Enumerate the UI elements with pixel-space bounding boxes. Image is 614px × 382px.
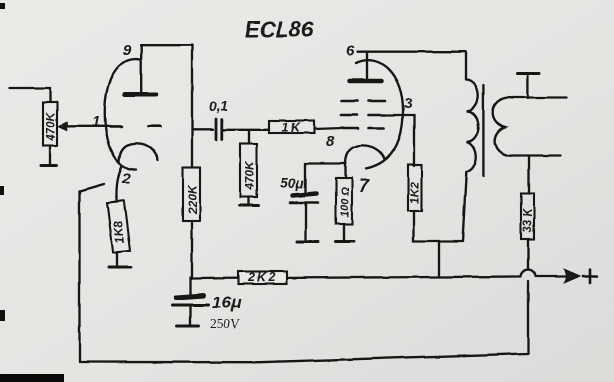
tube V2 pentode envelope	[356, 60, 403, 168]
transformer T1 primary bottom lead	[463, 172, 467, 241]
svg-text:250V: 250V	[210, 316, 240, 331]
B+ arrow head	[565, 270, 579, 282]
capacitor C3 16u bottom plate	[173, 304, 209, 307]
svg-text:16μ: 16μ	[212, 293, 242, 312]
resistor R1 470K (grid leak)	[43, 102, 58, 146]
pentode grid dashes row2	[341, 114, 385, 117]
wire screen grid pin 3	[385, 115, 414, 166]
pentode cathode arc	[346, 145, 385, 164]
svg-text:8: 8	[326, 133, 335, 150]
wire C1 to 1K	[223, 129, 269, 131]
pentode cathode wire	[306, 164, 347, 179]
scan artifact top-left	[0, 3, 5, 9]
svg-text:1: 1	[92, 114, 100, 131]
wire junction down to R4	[248, 131, 250, 144]
wire below R2	[116, 252, 118, 268]
svg-text:100 Ω: 100 Ω	[340, 187, 352, 217]
resistor R4 470K (pentode grid leak)	[240, 144, 257, 197]
wire below 100ohm	[343, 224, 345, 241]
ground terminal below R4	[240, 204, 259, 207]
svg-text:33 K: 33 K	[523, 208, 535, 233]
capacitor C2 50u wire	[304, 164, 306, 193]
svg-text:2K2: 2K2	[247, 271, 277, 285]
svg-text:3: 3	[404, 95, 413, 112]
ground terminal below R2	[109, 266, 132, 269]
feedback wire bottom	[80, 354, 528, 363]
scan artifact bottom strip	[0, 374, 64, 382]
triode cathode arc	[119, 143, 158, 162]
resistor R5 220K (anode load)	[183, 168, 201, 221]
scan artifact left edge lower	[0, 310, 5, 321]
plus sign	[583, 270, 597, 284]
svg-text:2: 2	[121, 170, 131, 187]
resistor R3 1K (grid stopper)	[269, 121, 314, 135]
wire below 1K2	[414, 212, 463, 242]
scan artifact left edge	[0, 186, 4, 195]
ground terminal below C2	[297, 240, 319, 243]
transformer T1 primary top lead	[464, 52, 466, 80]
wire junction down to B+ rail	[438, 241, 440, 277]
triode anode plate	[125, 92, 157, 97]
resistor R2 1K8 (cathode)	[107, 201, 130, 253]
resistor R9 2K2 (B+ dropper)	[238, 271, 287, 285]
feedback wire left vertical	[78, 192, 80, 363]
svg-text:470K: 470K	[44, 111, 58, 142]
wire anode down to 220K	[191, 45, 193, 167]
ground terminal below R1	[41, 164, 57, 167]
pentode grid dashes row3	[343, 127, 384, 130]
wire below 220K to B+ rail	[191, 221, 193, 278]
resistor R6 100ohm (cathode)	[336, 178, 352, 224]
wire 1K to pentode grid	[314, 128, 343, 129]
transformer T1 primary winding	[466, 80, 479, 172]
wire below C3	[189, 305, 191, 325]
capacitor C2 50u bottom plate	[290, 201, 318, 204]
transformer T1 secondary bottom wire	[513, 154, 561, 156]
svg-text:1K2: 1K2	[408, 182, 422, 204]
wire below 33K	[527, 240, 529, 270]
svg-text:50μ: 50μ	[280, 175, 305, 191]
svg-text:6: 6	[346, 42, 355, 59]
svg-text:220K: 220K	[186, 184, 200, 215]
svg-text:9: 9	[123, 42, 132, 59]
wire to coupling cap	[192, 129, 213, 131]
tube V1 triode envelope	[105, 59, 140, 169]
pentode anode plate	[350, 79, 382, 84]
wire junction to 16u cap	[189, 277, 191, 295]
svg-text:470K: 470K	[243, 160, 257, 191]
wire below R1	[49, 146, 51, 165]
wire anode top	[141, 44, 192, 46]
svg-text:1K: 1K	[282, 121, 302, 135]
wire below R4	[247, 197, 249, 205]
wire below hop to bottom return	[527, 281, 529, 353]
transformer T1 secondary top wire	[513, 96, 567, 98]
B+ rail right of hop	[536, 275, 567, 277]
triode anode lead	[140, 45, 142, 92]
svg-text:7: 7	[359, 176, 370, 196]
transformer T1 secondary winding	[493, 98, 513, 156]
resistor R8 33K (feedback)	[521, 194, 535, 240]
triode cathode wire	[116, 166, 122, 202]
arrow into grid	[58, 122, 67, 130]
ground terminal below C3	[177, 325, 199, 328]
capacitor C2 50u top plate	[293, 194, 318, 196]
pentode anode lead	[366, 52, 368, 79]
wire input top-left	[10, 88, 50, 102]
B+ rail	[192, 277, 520, 279]
wire below C2	[304, 203, 306, 242]
ground lead on secondary top	[527, 75, 529, 99]
feedback wire diagonal to cathode	[80, 185, 105, 192]
transformer T1 core	[482, 85, 484, 176]
ground terminal secondary	[518, 72, 540, 75]
triode grid dashes	[110, 125, 161, 128]
wire secondary bottom to 33K	[528, 156, 530, 194]
svg-text:1K8: 1K8	[110, 220, 127, 244]
capacitor C3 16u top plate	[176, 296, 204, 298]
svg-text:0,1: 0,1	[209, 98, 229, 114]
wire pentode anode to transformer	[357, 51, 466, 53]
wire grid V1 triode	[66, 125, 112, 127]
wire hop over B+ rail	[521, 270, 536, 277]
ground terminal below 100ohm	[336, 240, 354, 243]
pentode grid dashes row1	[341, 100, 385, 103]
capacitor C1 0.1 plates	[216, 119, 222, 140]
resistor R7 1K2 (screen)	[408, 165, 422, 212]
svg-text:ECL86: ECL86	[245, 17, 314, 42]
